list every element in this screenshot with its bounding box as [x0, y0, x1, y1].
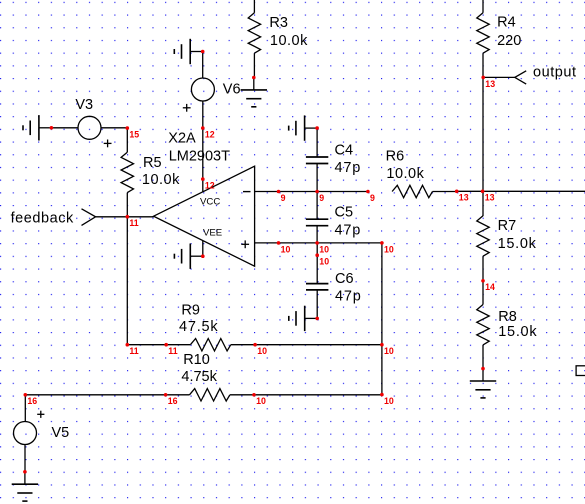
svg-text:47.5k: 47.5k: [179, 319, 218, 335]
svg-text:R10: R10: [183, 352, 210, 368]
svg-text:X2A: X2A: [168, 131, 196, 147]
ground at VEE: [190, 255, 203, 257]
svg-text:16: 16: [27, 396, 37, 406]
svg-text:VCC: VCC: [200, 197, 220, 208]
node 9 R6 left pin: [366, 190, 370, 194]
node 12 VCC pin: [201, 177, 205, 181]
node 11 R9 row: [126, 343, 130, 347]
wire R10 to net10: [254, 394, 382, 396]
svg-text:10.0k: 10.0k: [386, 166, 424, 182]
svg-text:R6: R6: [386, 148, 405, 164]
wire R7 bottom lead: [482, 256, 484, 281]
wire C4 bottom lead: [316, 164, 318, 192]
svg-text:220: 220: [497, 33, 521, 49]
svg-text:R8: R8: [498, 309, 517, 325]
wire R8 bottom lead: [482, 345, 484, 369]
wire output stub: [483, 76, 515, 78]
node 13 output junction: [481, 76, 485, 80]
node 13 junction at R6 row: [481, 190, 485, 194]
svg-text:C5: C5: [335, 205, 354, 221]
ground left of V3: [39, 127, 52, 129]
svg-text:R7: R7: [498, 218, 517, 234]
svg-text:47p: 47p: [335, 222, 362, 238]
ground below V5: [24, 472, 26, 484]
node 9 C4 junction: [315, 190, 319, 194]
node 16 V5 junction: [24, 393, 28, 397]
svg-text:9: 9: [281, 193, 286, 203]
node 10 junction R9 row: [380, 343, 384, 347]
wire R6 right lead: [433, 191, 457, 193]
resistor R7: [477, 216, 489, 256]
svg-text:10: 10: [384, 396, 394, 406]
svg-text:16: 16: [168, 396, 178, 406]
svg-text:47p: 47p: [335, 289, 362, 305]
svg-text:10: 10: [319, 257, 329, 267]
node C4 top pin: [315, 126, 319, 130]
ground below R8: [482, 369, 484, 381]
node 10 corner R10 row: [380, 393, 384, 397]
svg-text:15.0k: 15.0k: [498, 236, 537, 252]
wire V5 top lead: [24, 395, 26, 422]
node 10 R9 right pin: [253, 343, 257, 347]
wire net13 vertical R4 to R7: [482, 77, 484, 216]
svg-text:13: 13: [459, 193, 469, 203]
wire net10 vertical: [381, 243, 383, 395]
pin arrow output: [515, 71, 526, 84]
svg-text:11: 11: [168, 346, 177, 356]
wire R4 bottom lead: [482, 53, 484, 77]
svg-text:V3: V3: [75, 97, 93, 113]
wire C5 top lead: [316, 192, 318, 220]
svg-text:V6: V6: [223, 82, 241, 98]
node 10 R10 right pin: [252, 393, 256, 397]
wire R8 top lead: [482, 281, 484, 305]
node V6 top pin: [201, 50, 205, 54]
wire V5 bottom lead: [24, 445, 26, 472]
svg-text:10.0k: 10.0k: [142, 172, 180, 188]
node 13 R6 right pin: [455, 190, 459, 194]
ground at C6: [305, 317, 318, 319]
wire R10 right lead: [230, 394, 254, 396]
svg-text:10: 10: [281, 244, 291, 254]
wire R4 top lead: [482, 0, 484, 13]
node 16 R10 left pin: [164, 393, 168, 397]
wire V5 to R10: [25, 394, 189, 396]
node 10 C6 top pin: [315, 253, 319, 257]
wire VEE stub: [202, 241, 204, 257]
node VEE pin: [201, 254, 205, 258]
resistor R10: [190, 389, 230, 401]
wire net13 to right edge: [457, 190, 585, 192]
wire V6 top lead: [202, 52, 204, 79]
resistor R5: [121, 152, 133, 192]
pin arrow feedback: [82, 209, 96, 226]
svg-text:47p: 47p: [335, 160, 362, 176]
wire R9 to net10: [255, 344, 382, 346]
svg-text:10.0k: 10.0k: [270, 33, 308, 49]
svg-text:VEE: VEE: [203, 228, 222, 239]
wire R3 top lead: [253, 0, 255, 13]
source V6: [191, 78, 214, 101]
svg-text:R3: R3: [269, 15, 288, 31]
partial box at right edge: [576, 366, 585, 376]
svg-text:4.75k: 4.75k: [181, 369, 217, 385]
node 10 right corner: [380, 241, 384, 245]
svg-text:C6: C6: [335, 271, 354, 287]
node 12 V6 pin: [201, 126, 205, 130]
wire net11 vertical: [126, 217, 128, 345]
node 10 C5 junction: [315, 241, 319, 245]
node 15: [126, 126, 130, 130]
svg-text:LM2903T: LM2903T: [169, 148, 230, 164]
node 10 op-amp plus pin: [277, 241, 281, 245]
wire C6 top lead: [316, 255, 318, 283]
svg-text:9: 9: [319, 193, 324, 203]
wire R3 bottom lead: [253, 53, 255, 77]
wire V3 to node 15: [101, 127, 128, 129]
op-amp U X2A: [154, 166, 255, 266]
wire R9 right lead: [231, 344, 255, 346]
svg-text:C4: C4: [335, 142, 354, 158]
node V5-ground junction: [23, 470, 27, 474]
source V3: [78, 116, 101, 139]
node 9 op-amp minus pin: [277, 190, 281, 194]
node 11 R9 left pin: [164, 343, 168, 347]
capacitor C5: [306, 218, 328, 220]
svg-text:output: output: [533, 64, 577, 80]
svg-text:feedback: feedback: [11, 210, 74, 226]
svg-text:R5: R5: [143, 155, 162, 171]
resistor R4: [477, 13, 489, 53]
wire plus input row: [255, 242, 382, 244]
wire ground to V3: [51, 127, 78, 129]
svg-text:10: 10: [257, 346, 267, 356]
svg-text:15.0k: 15.0k: [498, 324, 537, 340]
resistor R6: [392, 185, 432, 197]
svg-text:11: 11: [129, 218, 138, 228]
plus sign V6: [183, 107, 191, 109]
svg-text:10: 10: [319, 244, 329, 254]
svg-text:R9: R9: [181, 303, 200, 319]
svg-text:11: 11: [129, 346, 138, 356]
svg-text:10: 10: [384, 346, 394, 356]
resistor R9: [190, 339, 230, 351]
wire C5 bottom lead: [316, 226, 318, 243]
svg-text:13: 13: [485, 193, 495, 203]
ground left of V6: [190, 51, 203, 53]
wire feedback to node 11: [96, 216, 154, 218]
wire R5 top lead: [126, 128, 128, 152]
node V3 negative pin: [50, 126, 54, 130]
svg-text:14: 14: [485, 282, 495, 292]
resistor R8: [477, 305, 489, 345]
svg-text:10: 10: [384, 244, 394, 254]
wire net10 to C6: [316, 243, 318, 255]
node 11: [126, 215, 130, 219]
wire C6 bottom lead: [316, 290, 318, 319]
resistor R3: [248, 13, 260, 53]
svg-text:12: 12: [205, 181, 215, 191]
node 14: [481, 279, 485, 283]
svg-text:9: 9: [370, 193, 375, 203]
node R3-ground junction: [252, 76, 256, 80]
wire V6 to VCC: [202, 101, 204, 192]
wire R5 bottom lead: [126, 193, 128, 217]
svg-text:12: 12: [205, 130, 215, 140]
ground left of C4: [305, 127, 318, 129]
plus sign V3: [104, 142, 112, 144]
plus sign V5: [37, 413, 44, 415]
svg-text:V5: V5: [52, 425, 70, 441]
capacitor C6: [306, 283, 328, 285]
wire to R9 left pin: [127, 344, 190, 346]
node C6 bottom pin: [315, 317, 319, 321]
svg-text:10: 10: [256, 396, 266, 406]
ground below R3: [253, 78, 255, 90]
wire C4 top lead: [316, 128, 318, 157]
source V5: [14, 422, 37, 445]
svg-text:15: 15: [129, 130, 139, 140]
svg-text:R4: R4: [497, 15, 516, 31]
wire minus input row: [255, 191, 368, 193]
node R8-ground junction: [481, 367, 485, 371]
svg-text:13: 13: [485, 79, 495, 89]
capacitor C4: [306, 156, 328, 158]
